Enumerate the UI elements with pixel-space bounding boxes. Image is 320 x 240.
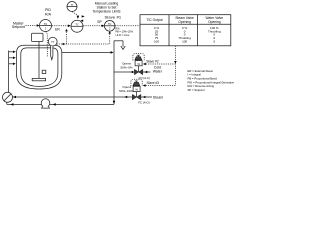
svg-text:Setpoint: Setpoint xyxy=(12,25,25,29)
wire branch to slave #2 positioner xyxy=(146,63,176,65)
svg-text:Opening: Opening xyxy=(208,20,221,24)
pipe pump suction line xyxy=(7,103,114,105)
arrow down into pump suction xyxy=(113,101,116,104)
thermowell xyxy=(51,46,53,60)
slave #1 controller bubble xyxy=(104,21,115,32)
motor M xyxy=(32,33,44,41)
slave PV arrow xyxy=(108,31,111,33)
svg-text:Water: Water xyxy=(153,69,163,73)
pipe jacket outlet xyxy=(62,51,111,53)
agitator shaft xyxy=(38,42,40,79)
label Opens 50%-100% xyxy=(119,85,135,93)
svg-text:50%–100%: 50%–100% xyxy=(119,89,135,93)
flow arrow right of valve2 xyxy=(143,96,146,99)
wire station down to limiter xyxy=(72,12,77,16)
limiter limit arrows xyxy=(82,15,85,17)
svg-text:TC: TC xyxy=(44,22,48,26)
pump P1 xyxy=(41,99,50,108)
svg-text:Slave #2: Slave #2 xyxy=(146,59,159,63)
label Opens 50%-0% xyxy=(120,62,132,70)
wire positioner loop valve2 xyxy=(131,79,142,86)
svg-text:PID: PID xyxy=(45,8,51,12)
jacket feed header xyxy=(8,51,10,93)
limiter bubble B xyxy=(71,20,83,32)
wire TT to risers xyxy=(63,43,66,45)
flow arrow right of valve1 xyxy=(144,71,147,74)
svg-text:SP: SP xyxy=(97,20,102,24)
svg-text:TY: TY xyxy=(75,23,79,27)
wire measurement riser xyxy=(66,32,68,44)
svg-text:TC: TC xyxy=(108,22,112,26)
wire positioner loop valve1 xyxy=(133,53,144,60)
svg-text:ER: ER xyxy=(55,28,60,32)
pipe steam supply xyxy=(141,96,152,98)
baffle box xyxy=(42,70,46,73)
label Master Setpoint xyxy=(12,22,25,29)
svg-text:Steam: Steam xyxy=(153,96,163,100)
drain stub xyxy=(114,40,123,42)
svg-text:TY: TY xyxy=(70,4,73,7)
svg-text:%: % xyxy=(137,62,140,66)
svg-text:Opening: Opening xyxy=(178,20,191,24)
pipe vertical main xyxy=(113,41,115,105)
wire trunk table to valves xyxy=(174,46,176,86)
svg-text:Slave #3: Slave #3 xyxy=(147,81,160,85)
label Cold Water xyxy=(153,65,163,73)
wire master setpoint to controller A xyxy=(26,25,38,27)
transmitter TT bubble xyxy=(48,37,57,46)
exchanger stub xyxy=(6,102,8,104)
wire slave PV riser xyxy=(109,34,111,44)
legend xyxy=(188,69,235,92)
svg-text:Temperature Limits: Temperature Limits xyxy=(92,10,120,14)
node measurement junction arrow xyxy=(65,29,68,32)
vessel outer jacket xyxy=(17,45,62,89)
jacket feed arrows xyxy=(9,52,13,64)
svg-text:50%–0%: 50%–0% xyxy=(120,66,132,70)
pipe steam mix line xyxy=(13,96,133,98)
impeller xyxy=(32,78,45,80)
manual loading station bubble xyxy=(67,2,77,12)
svg-text:FO (A-C): FO (A-C) xyxy=(139,76,150,80)
wire branch to slave #3 positioner xyxy=(146,85,176,87)
table split-range xyxy=(140,15,231,46)
label PID R/A (master tuning) xyxy=(45,8,52,16)
slave tuning notes xyxy=(115,28,133,37)
svg-text:FC (A-O): FC (A-O) xyxy=(138,101,149,105)
valve V2 cold water xyxy=(134,55,142,74)
svg-text:100: 100 xyxy=(154,40,159,44)
svg-text:Slave #1: Slave #1 xyxy=(105,15,122,20)
svg-text:100: 100 xyxy=(182,40,187,44)
wire master sensor into vessel xyxy=(46,32,48,57)
vessel inner wall xyxy=(21,48,58,87)
wire limiter to slave SP xyxy=(83,25,102,27)
exchanger circle xyxy=(3,92,13,102)
pipe cold water xyxy=(114,71,151,73)
label Manual Loading Station to Set Temperature Limits xyxy=(92,2,120,14)
svg-text:TIC Output: TIC Output xyxy=(146,18,162,22)
svg-text:TT: TT xyxy=(51,40,55,44)
svg-text:SP = Setpoint: SP = Setpoint xyxy=(188,88,205,92)
svg-text:%: % xyxy=(135,88,138,92)
master controller TC bubble xyxy=(40,20,52,32)
wire slave output to table xyxy=(115,25,140,27)
valve V3 steam xyxy=(132,81,141,100)
svg-text:I & D = none: I & D = none xyxy=(115,34,130,37)
wire controller A to limiter B xyxy=(52,25,68,27)
svg-text:R/A: R/A xyxy=(45,13,52,17)
